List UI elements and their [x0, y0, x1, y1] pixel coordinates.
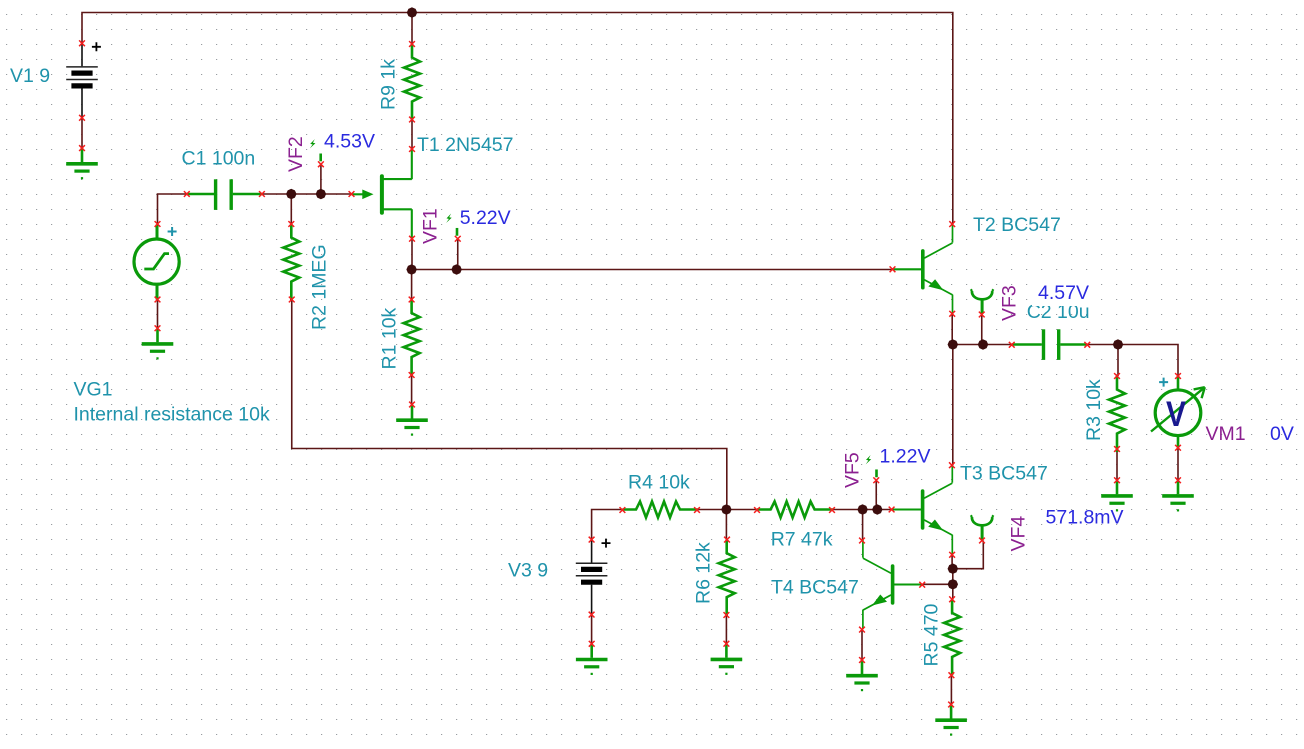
wire R2 feedback to bottom node [292, 300, 727, 510]
ground below V3 [576, 644, 608, 675]
wire R1 to ground [411, 375, 413, 405]
pin VM1 bottom [1175, 445, 1181, 451]
wire node to R5 [952, 584, 954, 599]
resistor R5 [944, 599, 960, 675]
svg-text:T1 2N5457: T1 2N5457 [417, 134, 513, 156]
wire node to R6 [725, 510, 727, 540]
pin VM1 top [1175, 373, 1181, 379]
pin gnd V1 [79, 145, 85, 151]
svg-text:C1 100n: C1 100n [182, 148, 256, 170]
wire T4 emitter to ground [861, 630, 863, 660]
pin T3 emitter [949, 552, 955, 558]
capacitor C2 [1012, 329, 1088, 360]
wire VF1 to node [457, 239, 459, 270]
svg-text:VF3: VF3 [999, 285, 1021, 321]
pin gnd R6 [724, 641, 730, 647]
battery V3 [576, 539, 611, 615]
pin R7 left [754, 507, 760, 513]
pin C1 right [259, 191, 265, 197]
pin R5 bottom [949, 672, 955, 678]
svg-text:4.57V: 4.57V [1038, 282, 1089, 304]
wire VG1 to ground [157, 300, 159, 329]
ground below VG1 [142, 328, 174, 359]
svg-text:1.22V: 1.22V [880, 445, 931, 467]
pin C2 left [1009, 342, 1015, 348]
wire VM1 to ground [1177, 448, 1179, 481]
resistor R6 [719, 540, 735, 616]
node top rail R9 [407, 8, 417, 18]
pin T1 gate [349, 191, 355, 197]
pin T1 source [409, 236, 415, 242]
transistor T1 (JFET) [352, 149, 412, 239]
svg-text:R2 1MEG: R2 1MEG [309, 244, 331, 330]
pin R2 bottom [289, 297, 295, 303]
svg-text:T3 BC547: T3 BC547 [960, 463, 1048, 485]
pin VF4 [979, 538, 985, 544]
svg-text:T2 BC547: T2 BC547 [973, 214, 1061, 236]
node R4 R6 [722, 505, 732, 515]
wire node to T4 base [922, 583, 953, 585]
pin VF5 [873, 477, 879, 483]
pin T1 drain [409, 146, 415, 152]
pin T2 collector [949, 221, 955, 227]
wire VG1 to C1 [158, 194, 187, 224]
ground below T4 [846, 660, 878, 691]
pin R5 top [949, 596, 955, 602]
wire node to VF4 [953, 541, 984, 569]
pin R1 top [409, 297, 415, 303]
svg-text:Internal resistance 10k: Internal resistance 10k [74, 404, 270, 426]
ground below R3 [1101, 480, 1133, 511]
wire node to R2 [290, 194, 292, 224]
pin T4 collector [859, 538, 865, 544]
pin R6 top [724, 537, 730, 543]
wire R3 to ground [1116, 449, 1118, 480]
resistor R7 [757, 502, 833, 518]
node T3 emitter VF4 [948, 564, 958, 574]
transistor T3 [892, 464, 953, 554]
wire node to T4 collector [862, 510, 864, 541]
ground below R6 [711, 644, 743, 675]
probe VF4 [971, 515, 994, 539]
svg-text:VM1: VM1 [1206, 423, 1246, 445]
wire output node to C2 [953, 344, 1012, 346]
pin R9 bottom [409, 117, 415, 123]
pin gnd R1 [409, 402, 415, 408]
svg-text:R4 10k: R4 10k [628, 472, 690, 494]
wire T2 emitter to output node [951, 314, 953, 345]
resistor R1 [404, 300, 420, 376]
probe VF5 [866, 455, 877, 477]
node T1 source R1 [407, 265, 417, 275]
pin gnd T4 [859, 657, 865, 663]
pin V1 + [79, 40, 85, 46]
ground below VM1 [1162, 480, 1194, 511]
svg-text:V: V [1166, 395, 1187, 434]
wire node to R3 [1117, 345, 1119, 377]
node T2 emitter out [948, 340, 958, 350]
pin T4 emitter [859, 627, 865, 633]
pin R1 bottom [409, 372, 415, 378]
pin R4 left [620, 507, 626, 513]
svg-text:571.8mV: 571.8mV [1046, 507, 1124, 529]
svg-text:R6 12k: R6 12k [693, 542, 715, 604]
svg-text:V1 9: V1 9 [10, 65, 50, 87]
svg-text:T4 BC547: T4 BC547 [771, 577, 859, 599]
node VF5 [872, 505, 882, 515]
pin C1 left [184, 191, 190, 197]
svg-text:VF1: VF1 [420, 208, 442, 244]
wire R9 to T1 drain [411, 120, 413, 150]
node C2 R3 [1113, 340, 1123, 350]
probe VF1 [446, 214, 457, 236]
wire R9 top [411, 13, 413, 45]
transistor T4 (mirrored) [863, 539, 924, 629]
pin gnd VM1 [1175, 477, 1181, 483]
svg-text:VF4: VF4 [1008, 516, 1030, 552]
svg-text:R5 470: R5 470 [921, 603, 943, 666]
svg-text:4.53V: 4.53V [324, 130, 375, 152]
resistor R9 [404, 44, 420, 120]
transistor T2 [892, 224, 953, 314]
wire T3 emitter to node [951, 555, 953, 569]
capacitor C1 [187, 179, 262, 210]
pin R2 top [288, 221, 294, 227]
value box 5.22V [456, 204, 514, 227]
pin C2 right [1084, 342, 1090, 348]
wire V3 to ground [591, 615, 593, 644]
pin gnd R3 [1114, 477, 1120, 483]
generator VG1 [134, 225, 179, 300]
wire R7 to T3 base [832, 509, 892, 511]
node C1-R2 [286, 189, 296, 199]
svg-text:VF2: VF2 [285, 136, 307, 172]
resistor R4 [622, 502, 698, 518]
pin V1 - [79, 115, 85, 121]
probe VF2 [310, 139, 321, 161]
ground below R1 [396, 405, 428, 436]
svg-text:R1 10k: R1 10k [379, 307, 401, 369]
wire C1 to T1 gate [262, 193, 352, 195]
pin R4 right [694, 507, 700, 513]
value box 1.22V [876, 443, 934, 466]
pin R3 bottom [1114, 446, 1120, 452]
wire node to node [952, 569, 954, 585]
resistor R3 [1109, 376, 1125, 452]
wire T1 source to node [411, 239, 413, 270]
wire VF2 to node [320, 164, 322, 194]
resistor R2 [283, 224, 299, 300]
node T4 base R5 [948, 579, 958, 589]
pin T2 base [890, 266, 896, 272]
value box 4.57V over C2 label [1032, 282, 1098, 307]
pin R9 top [409, 41, 415, 47]
pin V3 + [589, 537, 595, 543]
pin T2 emitter [949, 311, 955, 317]
pin V3 - [589, 612, 595, 618]
wire top rail V1 to T2 collector [82, 13, 953, 225]
wire V3 to R4 corner [592, 510, 623, 540]
node VF1 [452, 265, 462, 275]
pin gnd V3 [589, 641, 595, 647]
ground below R5 [935, 705, 967, 736]
wire main row node to T2 base [412, 269, 893, 271]
pin VF3 [979, 312, 985, 318]
wire output node to T3 collector [952, 345, 954, 466]
probe VF3 [971, 289, 994, 313]
svg-text:R7 47k: R7 47k [771, 529, 833, 551]
svg-text:R9 1k: R9 1k [378, 59, 400, 110]
svg-text:0V: 0V [1270, 423, 1294, 445]
svg-text:VF5: VF5 [842, 452, 864, 488]
node VF2 [316, 189, 326, 199]
pin VG1 - [155, 297, 161, 303]
pin T3 base [889, 507, 895, 513]
pin VF2 [318, 161, 324, 167]
wire V1 to ground [81, 118, 83, 148]
svg-text:R3 10k: R3 10k [1083, 379, 1105, 441]
svg-text:VG1: VG1 [74, 379, 113, 401]
ground below V1 [66, 148, 98, 179]
svg-text:5.22V: 5.22V [460, 207, 511, 229]
wire R4 to R7 [697, 509, 757, 511]
wire VF3 to node [981, 315, 983, 345]
pin R7 right [829, 507, 835, 513]
svg-text:V3 9: V3 9 [508, 560, 548, 582]
battery V1 [66, 42, 101, 118]
pin gnd R5 [948, 702, 954, 708]
pin T3 collector [949, 462, 955, 468]
wire node to R1 [411, 270, 413, 300]
pin VF1 [455, 236, 461, 242]
wire VF5 to node [875, 480, 877, 509]
pin T4 base [919, 582, 925, 588]
node VF3 [978, 340, 988, 350]
wire R6 to ground [725, 615, 727, 644]
node T4 collector [858, 505, 868, 515]
wire C2 to R3 and VM1 [1087, 345, 1178, 377]
wire R5 to ground [950, 675, 952, 704]
pin R3 top [1114, 373, 1120, 379]
voltmeter VM1 [1151, 376, 1205, 448]
pin gnd VG1 [155, 325, 161, 331]
pin VG1 + [155, 221, 161, 227]
pin R6 bottom [724, 612, 730, 618]
value box 4.53V [320, 128, 380, 151]
